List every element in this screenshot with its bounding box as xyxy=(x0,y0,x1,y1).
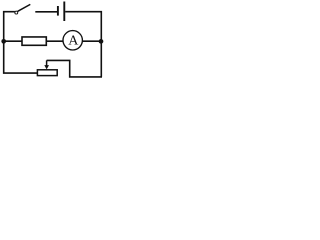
wire bottom-right: rail to rheostat wiper riser xyxy=(47,60,102,77)
rheostat RP box xyxy=(37,70,57,76)
resistor R box xyxy=(22,37,46,45)
switch S pivot terminal xyxy=(15,11,18,14)
battery negative plate (short) xyxy=(57,6,59,16)
rheostat wiper arrow shaft xyxy=(46,60,48,65)
ammeter U1 circle xyxy=(63,31,82,50)
wire battery to top-right corner and right rail down xyxy=(65,12,101,77)
wire switch to battery xyxy=(35,11,57,13)
rheostat wiper arrowhead xyxy=(44,65,49,69)
svg-text:A: A xyxy=(68,34,79,49)
battery positive plate (long) xyxy=(63,2,65,22)
node junction right xyxy=(99,39,104,44)
node junction left xyxy=(1,39,6,44)
wire resistor to ammeter xyxy=(46,40,63,42)
wire left dot to resistor xyxy=(4,40,22,42)
switch S lever (open) xyxy=(18,4,31,11)
wire ammeter to right dot xyxy=(82,40,101,42)
wire left side: top-left corner, left rail down to bottom-left corner, into rheostat xyxy=(4,12,38,73)
